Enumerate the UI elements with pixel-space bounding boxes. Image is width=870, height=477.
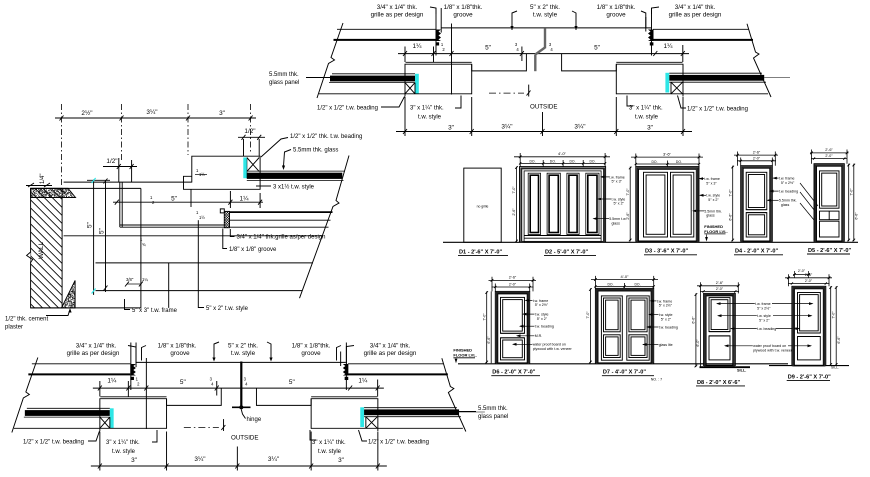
svg-text:5" x 2½": 5" x 2½" <box>781 181 795 185</box>
X-box beading <box>247 158 259 179</box>
stile rect extension <box>190 189 192 207</box>
svg-text:5" x 2": 5" x 2" <box>661 317 672 321</box>
svg-text:grille as per design: grille as per design <box>67 350 120 357</box>
svg-text:2'-6": 2'-6" <box>805 273 813 277</box>
svg-text:1¼: 1¼ <box>240 196 250 203</box>
svg-text:3/4" x 1/4" thk.: 3/4" x 1/4" thk. <box>377 4 418 11</box>
svg-text:6'-6": 6'-6" <box>837 336 841 344</box>
D7 leaf 2 <box>627 296 649 360</box>
svg-text:3/4" x 1/4" thk.: 3/4" x 1/4" thk. <box>76 343 117 350</box>
D8 glazed panel <box>709 298 730 332</box>
svg-text:t.w. frame: t.w. frame <box>657 299 673 303</box>
D3 leaf 1 <box>644 172 668 237</box>
svg-text:water proof board on: water proof board on <box>533 343 566 347</box>
svg-text:t.w. style: t.w. style <box>535 313 549 317</box>
plan section core (top) <box>317 8 790 136</box>
svg-text:glass lite: glass lite <box>659 343 673 347</box>
label: groove (right) <box>597 4 636 19</box>
D2 left dim <box>516 167 518 242</box>
label: grille as per design (left) <box>371 4 424 19</box>
cement plaster wedge (bottom, dotted) <box>62 281 76 308</box>
svg-text:3'-6": 3'-6" <box>663 151 672 156</box>
svg-text:2'-6": 2'-6" <box>825 148 833 152</box>
svg-text:t.w. style: t.w. style <box>757 314 771 318</box>
D2 panel 2 <box>547 173 560 234</box>
label: 5.5mm glass panel (left) <box>269 72 299 86</box>
svg-text:1/2" x 1/2" t.w. beading: 1/2" x 1/2" t.w. beading <box>368 440 429 446</box>
label: t.w. style (center) <box>530 4 560 19</box>
leaders to D5 <box>800 183 818 206</box>
D9 right dims <box>830 286 832 365</box>
svg-text:¾: ¾ <box>142 242 146 247</box>
D6 top dims <box>489 279 537 281</box>
svg-text:5" x 3": 5" x 3" <box>612 180 623 184</box>
svg-text:t.w. beading: t.w. beading <box>535 325 554 329</box>
D9 glazed panel <box>798 293 821 334</box>
door D7 (double door, glazed + panel leaves) <box>595 288 653 363</box>
D2 panel 1 <box>528 173 540 234</box>
D5 transom/louver box <box>820 211 840 220</box>
D8 bottom panel <box>709 336 730 360</box>
svg-text:t.w. style: t.w. style <box>418 115 442 121</box>
svg-text:D3 - 3'-6" X 7'-0": D3 - 3'-6" X 7'-0" <box>645 249 688 255</box>
ground line row 2 <box>458 363 788 365</box>
hinge knuckle <box>232 406 251 408</box>
svg-text:grille as per design: grille as per design <box>371 12 424 19</box>
svg-text:5" x 2½": 5" x 2½" <box>535 303 549 307</box>
svg-text:plaster: plaster <box>5 325 23 331</box>
wall with hatch <box>31 188 62 308</box>
svg-text:OUTSIDE: OUTSIDE <box>530 104 558 111</box>
svg-text:6'-6": 6'-6" <box>692 316 696 324</box>
svg-text:5" x 3" t.w. frame: 5" x 3" t.w. frame <box>132 308 178 314</box>
svg-text:2'-0": 2'-0" <box>805 279 813 283</box>
svg-text:3" x 1¼" thk.: 3" x 1¼" thk. <box>410 106 444 112</box>
svg-text:DO.: DO. <box>529 159 535 163</box>
svg-text:2'-0": 2'-0" <box>825 154 833 158</box>
D6 mid rail <box>501 332 525 334</box>
svg-text:t.w. beading: t.w. beading <box>779 190 798 194</box>
svg-text:5.5mm thk.: 5.5mm thk. <box>779 199 797 203</box>
svg-text:groove: groove <box>170 350 190 357</box>
D8 top dims <box>697 285 739 287</box>
svg-text:1/2" x 1/2" t.w. beading: 1/2" x 1/2" t.w. beading <box>317 106 378 112</box>
svg-text:M.R.: M.R. <box>535 334 543 338</box>
svg-text:6'-6": 6'-6" <box>728 213 732 221</box>
D5 right dims <box>848 164 850 242</box>
svg-text:1/4": 1/4" <box>40 174 46 184</box>
svg-text:grille as per design: grille as per design <box>364 350 417 357</box>
door D3 (double glazed door) <box>636 167 699 242</box>
svg-text:FLOOR LVL.: FLOOR LVL. <box>453 353 476 358</box>
label: t.w. style bottom left <box>410 106 444 121</box>
label: t.w. style bottom left <box>106 440 140 455</box>
svg-text:SILL.: SILL. <box>831 366 839 370</box>
svg-text:DO.: DO. <box>651 160 657 164</box>
svg-text:3/4" x 1/4" thk.: 3/4" x 1/4" thk. <box>370 343 411 350</box>
bottom dim texts <box>131 456 344 464</box>
small stacked dim 1.5 inside rect <box>196 168 205 177</box>
svg-text:4'-0": 4'-0" <box>621 274 630 279</box>
frame vertical 5x3 <box>140 188 142 308</box>
svg-text:D4 - 2'-0" X 7'-0": D4 - 2'-0" X 7'-0" <box>735 249 778 255</box>
D5 bottom panel <box>820 221 840 237</box>
svg-text:2'-6": 2'-6" <box>753 150 761 154</box>
svg-text:5.5mm thk.: 5.5mm thk. <box>478 406 508 412</box>
svg-text:3/4" x 1/4" thk.: 3/4" x 1/4" thk. <box>675 4 716 11</box>
D4 left dim <box>732 166 734 242</box>
label: grille as per design (left) <box>67 343 120 358</box>
svg-text:3 x1½ t.w. style: 3 x1½ t.w. style <box>273 184 315 191</box>
D9 mid rail <box>798 332 821 334</box>
D3 top dim <box>631 156 703 158</box>
svg-text:5" x 2": 5" x 2" <box>708 198 719 202</box>
svg-text:5" x 2½": 5" x 2½" <box>757 306 771 310</box>
svg-text:1/2" x 1/2" t.w. beading: 1/2" x 1/2" t.w. beading <box>23 440 84 446</box>
svg-text:1/2" x 1/2" t.w. beading: 1/2" x 1/2" t.w. beading <box>687 107 748 113</box>
svg-text:5.5mm t.w.: 5.5mm t.w. <box>609 217 626 221</box>
svg-text:1/2" x 1/2" thk. t.w. beading: 1/2" x 1/2" thk. t.w. beading <box>290 134 362 140</box>
svg-text:1/8" x 1/8" groove: 1/8" x 1/8" groove <box>229 247 277 253</box>
svg-text:t.w. frame: t.w. frame <box>609 175 625 179</box>
svg-text:hinge: hinge <box>247 417 262 423</box>
svg-text:t.w. frame: t.w. frame <box>704 177 720 181</box>
frame inner vertical <box>168 263 170 308</box>
D8 mid rail <box>709 331 730 333</box>
svg-text:3": 3" <box>448 125 454 132</box>
svg-text:7'-0": 7'-0" <box>728 189 732 197</box>
svg-text:2'-6": 2'-6" <box>716 281 724 285</box>
svg-text:WALL: WALL <box>38 241 45 259</box>
svg-text:FLOOR LVL.: FLOOR LVL. <box>704 229 727 234</box>
svg-text:5" x 2": 5" x 2" <box>537 317 548 321</box>
svg-text:3¼": 3¼" <box>501 124 512 131</box>
svg-text:2'-6": 2'-6" <box>512 208 516 216</box>
mid dim line 5" / 1.25" <box>113 201 263 203</box>
svg-text:t.w. style: t.w. style <box>318 449 342 455</box>
svg-text:t.w. beading: t.w. beading <box>659 325 678 329</box>
style vertical <box>197 220 199 303</box>
frame verticals <box>119 182 121 227</box>
svg-text:5" x 2" thk.: 5" x 2" thk. <box>228 343 258 350</box>
svg-text:t.w. style: t.w. style <box>112 449 136 455</box>
small 2'-0" dim figure <box>793 274 810 276</box>
D7 leaf 1 bottom panel <box>604 335 621 358</box>
D8 left dims <box>695 293 697 367</box>
svg-text:5": 5" <box>87 222 94 228</box>
glass panel band (black) <box>247 170 345 172</box>
door D2 (4-panel partition) <box>520 167 606 242</box>
svg-text:D1 - 2'-6" X 7'-0": D1 - 2'-6" X 7'-0" <box>459 250 502 256</box>
wall top line extended <box>31 187 141 189</box>
svg-text:7'-0": 7'-0" <box>512 186 516 194</box>
svg-text:glass panel: glass panel <box>478 414 508 420</box>
svg-text:1/8" x 1/8"thk.: 1/8" x 1/8"thk. <box>597 4 636 11</box>
meeting stile astragal (Z) <box>535 28 545 71</box>
svg-text:2'-0": 2'-0" <box>753 156 761 160</box>
svg-text:D8 - 2'-0" X 6'-6": D8 - 2'-0" X 6'-6" <box>697 380 740 386</box>
svg-text:7'-0": 7'-0" <box>832 311 836 319</box>
D6 bottom panel <box>501 338 525 360</box>
svg-text:2'-6": 2'-6" <box>509 276 517 280</box>
door D8 (short door 6'-6") <box>704 293 736 365</box>
stile rect R1 (3 x 1.5 t.w. style) <box>184 156 261 189</box>
svg-text:no grille: no grille <box>477 205 489 209</box>
svg-text:1/8" x 1/8"thk.: 1/8" x 1/8"thk. <box>444 4 483 11</box>
label: t.w. style (center) <box>228 343 258 358</box>
small stacked dim below <box>126 210 205 282</box>
svg-text:DO.: DO. <box>634 282 640 286</box>
svg-text:5" x 2": 5" x 2" <box>614 202 625 206</box>
D3 DO dims <box>636 163 699 165</box>
svg-text:5" x 2" t.w. style: 5" x 2" t.w. style <box>206 306 249 312</box>
svg-text:3¼": 3¼" <box>194 456 205 463</box>
svg-text:3": 3" <box>131 457 137 464</box>
long leaf lines <box>64 235 323 237</box>
bottom dim texts <box>448 124 653 132</box>
bottom wall line <box>31 307 141 309</box>
svg-text:plywood with t.w. veneer: plywood with t.w. veneer <box>753 349 793 353</box>
svg-text:3": 3" <box>338 457 344 464</box>
svg-text:5.5mm thk. glass: 5.5mm thk. glass <box>293 148 338 154</box>
svg-text:t.w. style: t.w. style <box>231 350 256 357</box>
svg-text:5" x 2" thk.: 5" x 2" thk. <box>530 4 560 11</box>
svg-text:t.w. frame: t.w. frame <box>533 299 549 303</box>
cyan glass edge <box>243 158 247 179</box>
svg-text:3¼": 3¼" <box>268 456 279 463</box>
svg-text:5": 5" <box>99 228 106 234</box>
D7 leaf 2 glazed panel <box>629 298 647 332</box>
svg-text:DO.: DO. <box>569 159 575 163</box>
grille block (crosshatched) <box>224 211 229 227</box>
D3 left dim <box>629 167 631 242</box>
vertical dim line 1 (cyan ticks) <box>93 180 95 295</box>
svg-text:groove: groove <box>453 12 473 19</box>
svg-text:7'-0": 7'-0" <box>482 313 486 321</box>
D2 panel 4 <box>586 173 599 234</box>
svg-text:t.w. style: t.w. style <box>612 197 626 201</box>
svg-text:4'-0": 4'-0" <box>558 151 567 156</box>
D4 mid rail <box>746 209 767 211</box>
door D9 <box>792 286 826 365</box>
svg-text:DO.: DO. <box>676 160 682 164</box>
break line (slanted right) <box>300 156 350 299</box>
svg-text:3" x 1¼" thk.: 3" x 1¼" thk. <box>106 440 140 446</box>
svg-text:1¼: 1¼ <box>142 277 148 282</box>
svg-text:1½: 1½ <box>199 215 205 220</box>
svg-text:glass: glass <box>612 221 621 225</box>
hinge stile (center vertical) <box>240 362 242 408</box>
D7 DO dims <box>595 285 653 287</box>
D7 leaf 1 glazed panel <box>604 298 621 332</box>
svg-text:t.w. style: t.w. style <box>706 194 720 198</box>
svg-text:5" x 3": 5" x 3" <box>706 181 717 185</box>
D6 glazed panel <box>501 297 525 333</box>
svg-text:1/8" x 1/8"thk.: 1/8" x 1/8"thk. <box>292 343 331 350</box>
D4 glazed panel <box>746 172 767 209</box>
svg-text:5.5mm thk.: 5.5mm thk. <box>269 72 299 78</box>
svg-text:t.w. frame: t.w. frame <box>755 302 771 306</box>
D7 leaf 2 bottom panel <box>629 335 647 358</box>
svg-text:2½": 2½" <box>81 109 92 117</box>
svg-text:t.w. frame: t.w. frame <box>779 177 795 181</box>
svg-text:t.w. style: t.w. style <box>533 12 558 19</box>
D9 top dims <box>785 277 832 279</box>
svg-text:3¼": 3¼" <box>574 124 585 131</box>
svg-text:6'-6": 6'-6" <box>855 212 859 220</box>
svg-text:2'-0": 2'-0" <box>509 282 517 286</box>
dim top tick bar <box>87 179 110 181</box>
svg-text:D9 - 2'-6" X 7'-0": D9 - 2'-6" X 7'-0" <box>788 374 831 380</box>
ground line row 2b (under D9) <box>769 365 849 367</box>
door D5 (narrow glazed) <box>814 164 844 242</box>
label: groove (left) <box>444 4 483 19</box>
D2 panel 3 <box>567 173 579 234</box>
D7 leaf 1 <box>601 296 622 360</box>
dash-dot extension verticals <box>62 104 251 187</box>
svg-text:6'-6": 6'-6" <box>487 336 491 344</box>
D9 bottom panel <box>798 337 821 360</box>
svg-text:6'-0": 6'-0" <box>696 339 700 347</box>
label: t.w. style bottom right <box>312 440 346 455</box>
svg-text:glass panel: glass panel <box>269 80 299 86</box>
svg-text:SILL.: SILL. <box>737 369 746 373</box>
svg-text:1/2": 1/2" <box>106 158 117 165</box>
svg-text:DO.: DO. <box>607 282 613 286</box>
D2 top dim 4'-0" <box>514 156 610 158</box>
frame head line from wall <box>64 181 192 183</box>
svg-text:D7 - 4'-0" X 7'-0": D7 - 4'-0" X 7'-0" <box>603 370 646 376</box>
svg-text:3": 3" <box>219 110 225 117</box>
svg-text:5" x 2½": 5" x 2½" <box>659 304 673 308</box>
svg-text:t.w. style: t.w. style <box>635 115 659 121</box>
svg-text:glass: glass <box>781 203 790 207</box>
D3 leaf 2 <box>671 172 694 237</box>
svg-text:NO. : 7: NO. : 7 <box>651 378 662 382</box>
svg-text:2'-6": 2'-6" <box>626 212 630 220</box>
svg-text:D5 - 2'-6" X 7'-0": D5 - 2'-6" X 7'-0" <box>808 248 851 254</box>
label: grille as per design (right) <box>669 4 722 19</box>
svg-text:3": 3" <box>647 125 653 132</box>
D7 top dim <box>591 279 658 281</box>
wall break zigzag left <box>27 252 33 263</box>
svg-text:D2 - 5'-0" X 7'-0": D2 - 5'-0" X 7'-0" <box>545 250 588 256</box>
top dim line <box>55 117 256 119</box>
door D1 (flush leaf) <box>464 168 501 242</box>
svg-text:glass: glass <box>706 214 715 218</box>
D5 top dims <box>810 152 849 154</box>
cement plaster strip (top, dotted) <box>31 188 76 197</box>
label: 5.5mm glass panel (right) <box>478 406 508 420</box>
svg-text:2'-0": 2'-0" <box>716 287 724 291</box>
svg-text:1/2": 1/2" <box>244 128 255 135</box>
svg-text:3¼": 3¼" <box>146 109 157 116</box>
vertical dim line 2 <box>105 181 107 292</box>
door D4 (glazed top + panel bottom) <box>741 166 773 242</box>
label: groove (right) <box>292 343 331 358</box>
svg-text:DO.: DO. <box>550 159 556 163</box>
svg-text:3/8": 3/8" <box>126 277 134 282</box>
leaf rail lines <box>230 211 333 213</box>
D4 top dims <box>734 154 778 156</box>
svg-text:3" x 1¼" thk.: 3" x 1¼" thk. <box>629 106 663 112</box>
D8 sill <box>700 366 751 368</box>
D2 bottom rail <box>524 235 601 237</box>
svg-text:water proof board on: water proof board on <box>753 344 786 348</box>
svg-text:groove: groove <box>606 12 626 19</box>
svg-text:plywood with t.w. veneer: plywood with t.w. veneer <box>533 347 573 351</box>
D5 glazed panel <box>820 171 840 208</box>
door D6 (glazed top + solid panel) <box>495 291 529 363</box>
label: groove (left) <box>158 343 197 358</box>
svg-text:5" x 2": 5" x 2" <box>759 319 770 323</box>
svg-text:5.5mm thk.: 5.5mm thk. <box>704 209 722 213</box>
label: grille as per design (right) <box>364 343 417 358</box>
ground line row 1 <box>443 241 858 243</box>
svg-text:3" x 1¼" thk.: 3" x 1¼" thk. <box>312 440 346 446</box>
svg-text:grille as per design: grille as per design <box>669 12 722 19</box>
svg-text:t.w. beading: t.w. beading <box>757 327 776 331</box>
label: cement plaster <box>5 317 48 331</box>
label: t.w. style bottom right <box>629 106 663 121</box>
D2 DO dims <box>520 162 605 164</box>
svg-text:DO.: DO. <box>589 159 595 163</box>
svg-text:7'-0": 7'-0" <box>850 188 854 196</box>
D7 left dim <box>589 288 591 363</box>
svg-text:1/8" x 1/8"thk.: 1/8" x 1/8"thk. <box>158 343 197 350</box>
svg-text:7'-0": 7'-0" <box>626 188 630 196</box>
plan section core (bottom, translated copy) <box>12 343 485 471</box>
svg-text:3/4" x 1/4" thk.grille as/per: 3/4" x 1/4" thk.grille as/per design <box>237 235 326 241</box>
svg-text:OUTSIDE: OUTSIDE <box>231 435 259 442</box>
svg-text:5": 5" <box>171 196 177 203</box>
svg-text:D6 - 2'-0" X 7'-0": D6 - 2'-0" X 7'-0" <box>492 370 535 376</box>
D4 bottom panel <box>746 213 767 237</box>
svg-text:t.w. style: t.w. style <box>659 313 673 317</box>
svg-text:groove: groove <box>301 350 321 357</box>
svg-text:7'-0": 7'-0" <box>586 311 590 319</box>
D6 left dims <box>486 291 488 363</box>
svg-text:1/2" thk. cement: 1/2" thk. cement <box>5 317 48 323</box>
